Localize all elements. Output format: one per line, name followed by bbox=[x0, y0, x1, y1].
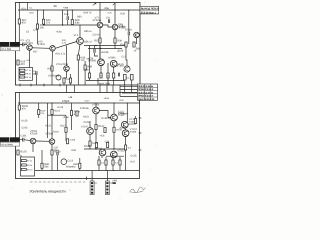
resistor R130 bbox=[51, 150, 53, 155]
svg-text:0,5: 0,5 bbox=[101, 162, 105, 165]
resistor R147 bbox=[125, 145, 127, 150]
svg-text:С103: С103 bbox=[22, 126, 28, 129]
resistor R22 bbox=[18, 19, 20, 24]
resistor R140 bbox=[41, 163, 43, 168]
bus wire A mid bbox=[84, 45, 126, 47]
resistor R125 bbox=[17, 150, 19, 155]
svg-text:R33: R33 bbox=[120, 99, 125, 102]
resistor R111 bbox=[76, 111, 78, 116]
wire bbox=[27, 3, 29, 11]
output box divider bbox=[140, 9, 159, 11]
wire bbox=[95, 46, 99, 57]
svg-text:R35 1к: R35 1к bbox=[84, 30, 93, 33]
svg-text:С17: С17 bbox=[122, 55, 127, 58]
junction dot bbox=[100, 48, 101, 49]
wire bbox=[66, 71, 68, 78]
gap wire x124.7 bbox=[124, 85, 126, 93]
capacitor C17 bbox=[118, 73, 119, 77]
svg-text:+4в: +4в bbox=[68, 96, 73, 99]
wire bbox=[79, 158, 81, 171]
junction arrow top 2 bbox=[113, 3, 116, 5]
wire bbox=[51, 144, 53, 150]
resistor R143 bbox=[107, 143, 109, 148]
junction dot bbox=[37, 9, 38, 10]
transistor VT9 bbox=[98, 59, 105, 66]
scan speckles bbox=[5, 19, 8, 22]
transistor VT103 bbox=[49, 139, 55, 145]
svg-text:R115: R115 bbox=[54, 109, 60, 112]
wire bbox=[18, 93, 20, 106]
emitter resistor RA1 bbox=[100, 73, 102, 78]
border tick A x31 bbox=[30, 84, 32, 87]
svg-text:С9 50мкФ: С9 50мкФ bbox=[48, 74, 59, 77]
ground rail B bbox=[35, 170, 140, 172]
junction dot bbox=[95, 45, 96, 46]
input connector A row2 bbox=[0, 47, 19, 51]
svg-text:КТ805: КТ805 bbox=[109, 57, 117, 60]
transistor VT105 bbox=[93, 107, 100, 114]
svg-text:ВЫХОД ЛЕВ 2Г: ВЫХОД ЛЕВ 2Г bbox=[141, 8, 159, 11]
svg-text:0,5: 0,5 bbox=[115, 162, 119, 165]
svg-text:КТ805: КТ805 bbox=[62, 100, 70, 103]
resistor R115 bbox=[51, 110, 53, 115]
svg-text:VТ4: VТ4 bbox=[74, 34, 79, 37]
emitter resistor RA3 bbox=[113, 73, 115, 78]
svg-text:СЗ 0,5: СЗ 0,5 bbox=[93, 33, 101, 36]
wire bbox=[51, 103, 53, 139]
svg-text:С113: С113 bbox=[67, 159, 73, 162]
svg-text:ХРЗ: ХРЗ bbox=[112, 180, 117, 183]
wire bbox=[20, 139, 31, 142]
resistor R34 bbox=[133, 42, 135, 47]
junction dot bbox=[19, 44, 20, 45]
svg-text:0,5: 0,5 bbox=[127, 76, 131, 79]
transistor VT4 bbox=[77, 38, 84, 45]
bus wire A low bbox=[86, 80, 124, 82]
wire bbox=[66, 46, 68, 66]
svg-text:ЛЕВ 4ГД-35 4о: ЛЕВ 4ГД-35 4о bbox=[138, 92, 154, 95]
bus wire B mid2 bbox=[106, 155, 124, 157]
border tick B right y118 bbox=[139, 117, 142, 119]
capacitor C7 bbox=[36, 71, 37, 75]
svg-text:С117: С117 bbox=[85, 99, 91, 102]
resistor R33 bbox=[125, 42, 127, 47]
input connector A black cell 2 bbox=[10, 42, 20, 47]
svg-text:R47: R47 bbox=[131, 160, 136, 163]
resistor R38 bbox=[88, 73, 90, 78]
svg-text:R7 1к: R7 1к bbox=[25, 69, 30, 72]
svg-text:R32: R32 bbox=[121, 12, 126, 15]
svg-text:С5: С5 bbox=[26, 30, 30, 33]
svg-text:С1: С1 bbox=[30, 7, 34, 10]
border tick bottom x86.5 bbox=[86, 177, 88, 180]
svg-text:R141: R141 bbox=[92, 142, 98, 145]
border tick A x60 bbox=[59, 84, 61, 87]
svg-text:R131: R131 bbox=[83, 115, 89, 118]
resistor R24 bbox=[36, 24, 38, 29]
table column line bbox=[144, 84, 146, 100]
svg-text:С1: С1 bbox=[21, 39, 25, 42]
wire bbox=[89, 46, 91, 74]
wire bbox=[99, 28, 101, 38]
svg-text:КТ808: КТ808 bbox=[130, 131, 137, 134]
resistor R8 bbox=[20, 73, 25, 75]
wire bbox=[77, 60, 79, 85]
transistor VT109 bbox=[121, 121, 128, 128]
wire bbox=[48, 114, 67, 116]
svg-text:+26в: +26в bbox=[104, 7, 110, 10]
frame channel B bbox=[16, 93, 140, 179]
svg-text:С13: С13 bbox=[64, 13, 69, 16]
svg-text:470: 470 bbox=[21, 63, 26, 66]
input connector A black cell 1 bbox=[0, 42, 9, 47]
resistor R32 bbox=[63, 78, 65, 83]
resistor R35 bbox=[84, 65, 86, 70]
transistor VT7 bbox=[97, 22, 103, 28]
wire bbox=[57, 155, 59, 170]
capacitor C37 bbox=[57, 152, 58, 156]
svg-text:VТ5 КТ315: VТ5 КТ315 bbox=[56, 63, 69, 66]
emitter resistor RB4 bbox=[119, 160, 121, 165]
svg-text:R8 2к: R8 2к bbox=[27, 164, 32, 167]
svg-text:R125: R125 bbox=[20, 150, 27, 153]
svg-text:0,5: 0,5 bbox=[107, 75, 111, 78]
wire bbox=[36, 140, 50, 142]
gap wire x66.5 bbox=[66, 85, 68, 93]
resistor R141 bbox=[95, 143, 97, 148]
capacitor C11 bbox=[108, 19, 109, 23]
junction dot bbox=[62, 9, 63, 10]
resistor R105 bbox=[18, 105, 20, 110]
base bus wire A bbox=[44, 24, 98, 26]
wire bbox=[38, 103, 40, 118]
wire bbox=[20, 155, 22, 157]
transistor VT112 bbox=[110, 151, 117, 158]
svg-text:С103: С103 bbox=[84, 121, 90, 124]
wire bbox=[125, 150, 127, 171]
svg-text:R30: R30 bbox=[48, 67, 53, 70]
bus wire A mid2 bbox=[88, 48, 122, 50]
svg-text:С109: С109 bbox=[70, 139, 76, 142]
svg-text:ЛЕВ: ЛЕВ bbox=[11, 44, 16, 47]
svg-text:ПРАВ 2ГД-36 8: ПРАВ 2ГД-36 8 bbox=[138, 88, 154, 91]
svg-text:Д226: Д226 bbox=[118, 49, 124, 52]
junction dot bbox=[65, 102, 66, 103]
gap wire x131.7 bbox=[131, 85, 133, 93]
svg-text:VТ111: VТ111 bbox=[95, 147, 103, 150]
resistor R34b bbox=[69, 78, 71, 83]
svg-text:R133 1к: R133 1к bbox=[102, 117, 112, 120]
resistor R127 bbox=[66, 139, 68, 144]
wire bbox=[43, 10, 45, 25]
junction dot bbox=[95, 148, 96, 149]
resistor R137 bbox=[95, 125, 97, 130]
svg-text:R34: R34 bbox=[72, 149, 77, 152]
svg-text:0,5: 0,5 bbox=[128, 146, 132, 149]
svg-text:ПРАВ 4ГД-35 4: ПРАВ 4ГД-35 4 bbox=[138, 95, 154, 98]
svg-text:10мк: 10мк bbox=[54, 149, 60, 152]
resistor R107 bbox=[38, 110, 40, 115]
wire bbox=[51, 51, 54, 66]
junction dot bbox=[95, 102, 96, 103]
gap wire x113 bbox=[112, 85, 114, 93]
power rail A bbox=[18, 9, 140, 11]
input connector B row2 bbox=[0, 142, 19, 146]
resistor R26 bbox=[42, 19, 44, 24]
emitter resistor RA2 bbox=[107, 73, 109, 78]
handwriting mark bbox=[130, 187, 146, 193]
svg-text:С33: С33 bbox=[105, 141, 110, 144]
input connector B black cell 2 bbox=[10, 137, 20, 142]
wire to mid table bbox=[120, 85, 138, 96]
resistor R145 bbox=[134, 119, 136, 124]
capacitor C9 bbox=[56, 75, 61, 80]
wire bbox=[62, 10, 64, 25]
svg-text:ВХОД: ВХОД bbox=[1, 44, 8, 47]
svg-text:КТ315: КТ315 bbox=[30, 132, 38, 135]
wire bbox=[98, 78, 114, 85]
resistor R37 bbox=[99, 38, 101, 43]
wire bbox=[37, 10, 39, 44]
wire bbox=[78, 25, 80, 55]
capacitor C113 bbox=[61, 159, 67, 165]
connector ladder XP1 bbox=[90, 181, 94, 195]
wire bbox=[51, 155, 53, 171]
svg-text:ОБЩ ЭКРАН 00: ОБЩ ЭКРАН 00 bbox=[138, 98, 155, 101]
wire bbox=[41, 150, 43, 171]
sub-box A bbox=[19, 68, 33, 81]
transistor VT8 bbox=[112, 24, 118, 30]
svg-text:VТ7: VТ7 bbox=[95, 17, 100, 20]
wire bbox=[18, 110, 20, 140]
wire bbox=[100, 46, 114, 74]
wire bbox=[114, 3, 116, 39]
svg-text:Д226: Д226 bbox=[120, 126, 126, 129]
wire bbox=[35, 75, 37, 85]
resistor R109b bbox=[21, 168, 26, 170]
resistor R108b bbox=[21, 164, 26, 166]
svg-text:R30: R30 bbox=[77, 15, 82, 18]
wire bbox=[89, 121, 91, 141]
output box top right bbox=[140, 6, 159, 14]
wire bbox=[84, 61, 86, 85]
resistor R30 bbox=[51, 66, 53, 71]
wire bbox=[126, 47, 127, 66]
resistor R139 bbox=[113, 127, 115, 132]
svg-text:+0,6в: +0,6в bbox=[56, 30, 63, 33]
transistor VT1 bbox=[27, 45, 33, 51]
transistor VT10 bbox=[110, 60, 117, 67]
resistor R25 bbox=[17, 60, 19, 65]
wire bbox=[90, 130, 114, 150]
wire bbox=[99, 156, 120, 160]
svg-text:КТ315Б: КТ315Б bbox=[80, 107, 89, 110]
svg-text:+26в: +26в bbox=[63, 7, 69, 10]
gap wire x100 bbox=[99, 85, 101, 93]
wire bbox=[128, 116, 135, 124]
border tick A x20 bbox=[19, 84, 21, 87]
svg-text:R119: R119 bbox=[53, 130, 59, 133]
svg-text:R7 1к: R7 1к bbox=[27, 160, 32, 163]
wire bbox=[89, 78, 91, 81]
svg-text:1000мкФ: 1000мкФ bbox=[118, 113, 128, 116]
power rail B bbox=[18, 102, 140, 104]
frame channel A bbox=[16, 3, 141, 86]
wire bbox=[125, 80, 132, 85]
svg-text:+2,6в: +2,6в bbox=[63, 116, 70, 119]
resistor R46 bbox=[79, 163, 81, 168]
transistor VT3 bbox=[50, 46, 56, 52]
svg-text:R8 2к: R8 2к bbox=[25, 73, 30, 76]
wire bbox=[71, 10, 73, 25]
svg-text:АТ-2 ЛЕВ: АТ-2 ЛЕВ bbox=[1, 48, 11, 51]
junction dot bbox=[43, 9, 44, 10]
transistor VT5 bbox=[64, 66, 70, 72]
wire bbox=[113, 103, 115, 127]
border tick B right y133 bbox=[139, 132, 142, 134]
wire bbox=[67, 10, 69, 25]
svg-text:КТ805: КТ805 bbox=[89, 60, 97, 63]
resistor R7 bbox=[20, 69, 25, 71]
svg-text:Усилитель мощности: Усилитель мощности bbox=[29, 189, 65, 193]
svg-text:КТ315: КТ315 bbox=[38, 43, 46, 46]
capacitor C13 bbox=[67, 16, 68, 20]
junction dot bbox=[113, 102, 114, 103]
svg-text:R9 15: R9 15 bbox=[25, 76, 31, 79]
transistor VT101 bbox=[30, 138, 36, 144]
emitter resistor RA4 bbox=[123, 75, 126, 81]
wire bbox=[29, 50, 31, 67]
junction dot bbox=[127, 102, 128, 103]
table column line 2 bbox=[150, 84, 152, 100]
svg-text:R113: R113 bbox=[58, 106, 64, 109]
capacitor C101 bbox=[23, 138, 24, 142]
wire bbox=[51, 71, 53, 85]
transistor VT106 bbox=[111, 114, 118, 121]
capacitor C19 bbox=[94, 49, 95, 53]
transistor VT111 bbox=[99, 149, 106, 156]
svg-text:ш1: ш1 bbox=[94, 182, 98, 185]
wire bbox=[125, 103, 128, 145]
svg-text:R37: R37 bbox=[94, 39, 99, 42]
svg-text:R117: R117 bbox=[60, 124, 66, 127]
emitter resistor RB2 bbox=[105, 160, 107, 165]
svg-text:R34: R34 bbox=[136, 48, 141, 51]
svg-text:R29 75: R29 75 bbox=[84, 11, 93, 14]
mid-right table bbox=[138, 84, 158, 100]
svg-text:КТ315: КТ315 bbox=[26, 42, 34, 45]
svg-text:+41,5в: +41,5в bbox=[101, 51, 109, 54]
transistor VT107 bbox=[87, 128, 94, 135]
svg-text:АТ-2 ПРАВ: АТ-2 ПРАВ bbox=[1, 143, 13, 146]
wire bbox=[99, 165, 120, 171]
svg-text:ВХОД: ВХОД bbox=[1, 139, 8, 142]
svg-text:ЛЕВ 2ГД-36 8о: ЛЕВ 2ГД-36 8о bbox=[138, 85, 154, 88]
transistor VT6 bbox=[134, 32, 140, 38]
wire right column bbox=[128, 10, 130, 44]
wire bbox=[71, 103, 73, 130]
resistor R117 bbox=[65, 127, 67, 132]
svg-text:R33: R33 bbox=[120, 43, 125, 46]
bus wire B mid bbox=[84, 148, 127, 150]
svg-text:R38: R38 bbox=[84, 68, 89, 71]
junction arrow top bbox=[93, 3, 96, 6]
input connector B black cell 1 bbox=[0, 137, 9, 142]
svg-text:+41в: +41в bbox=[104, 97, 110, 100]
svg-text:R31 4,7к: R31 4,7к bbox=[56, 53, 67, 56]
wire bbox=[136, 38, 138, 44]
svg-text:КТ361: КТ361 bbox=[125, 28, 133, 31]
wire bbox=[99, 43, 101, 59]
gap wire x107 bbox=[106, 85, 108, 93]
wire bbox=[18, 3, 20, 20]
junction dot bbox=[62, 24, 63, 25]
svg-text:ПРАВ: ПРАВ bbox=[11, 139, 18, 142]
emitter resistor RB3 bbox=[112, 160, 114, 165]
resistor R6c bbox=[104, 128, 106, 133]
svg-text:R39: R39 bbox=[117, 39, 122, 42]
wire bbox=[65, 116, 67, 142]
resistor R109 bbox=[70, 111, 72, 116]
svg-text:С123: С123 bbox=[131, 154, 137, 157]
capacitor C15 bbox=[128, 32, 129, 36]
svg-text:R123: R123 bbox=[22, 119, 28, 122]
emitter resistor RB1 bbox=[98, 160, 100, 165]
emitter resistor RA5 bbox=[130, 75, 133, 81]
wire bbox=[92, 171, 107, 182]
wire bbox=[95, 103, 97, 125]
svg-text:0,5: 0,5 bbox=[100, 75, 104, 78]
svg-text:R36 4,7: R36 4,7 bbox=[84, 40, 93, 43]
svg-text:2ГД-36 8ом 1: 2ГД-36 8ом 1 bbox=[141, 11, 157, 14]
wire bbox=[64, 74, 71, 85]
wire bbox=[47, 103, 49, 138]
table row line 4 bbox=[138, 96, 158, 98]
svg-text:R21: R21 bbox=[22, 7, 27, 10]
wire bbox=[18, 24, 20, 44]
wire bbox=[32, 144, 34, 152]
wire bbox=[32, 47, 50, 50]
table row line 2 bbox=[138, 90, 158, 92]
svg-text:ВЫХ.ЛЕВ: ВЫХ.ЛЕВ bbox=[99, 82, 110, 85]
resistor R9 bbox=[20, 76, 25, 78]
junction dot bbox=[51, 102, 52, 103]
svg-text:R23: R23 bbox=[30, 11, 35, 14]
transistor VT110 bbox=[122, 130, 129, 137]
svg-text:С101: С101 bbox=[21, 135, 28, 138]
junction dot bbox=[128, 9, 129, 10]
junction dot bbox=[113, 148, 114, 149]
sub-box B bbox=[21, 157, 35, 176]
capacitor C1 bbox=[23, 43, 24, 47]
svg-text:КТ802: КТ802 bbox=[117, 64, 125, 67]
resistor R33a bbox=[77, 55, 79, 60]
resistor R39 bbox=[114, 38, 116, 43]
border tick A x44 bbox=[43, 84, 45, 87]
svg-text:С11: С11 bbox=[106, 16, 111, 19]
gap wire x74.5 bbox=[74, 85, 76, 93]
svg-text:4,7к: 4,7к bbox=[62, 41, 66, 44]
dashed fold line bbox=[30, 181, 86, 183]
wire bbox=[20, 43, 27, 45]
svg-text:110: 110 bbox=[81, 59, 86, 62]
svg-text:50м: 50м bbox=[33, 72, 37, 75]
wire bbox=[99, 3, 101, 23]
junction dot bbox=[19, 139, 20, 140]
svg-text:R121: R121 bbox=[46, 124, 52, 127]
svg-text:6,8к: 6,8к bbox=[75, 22, 81, 25]
svg-text:R9 15: R9 15 bbox=[27, 168, 33, 171]
